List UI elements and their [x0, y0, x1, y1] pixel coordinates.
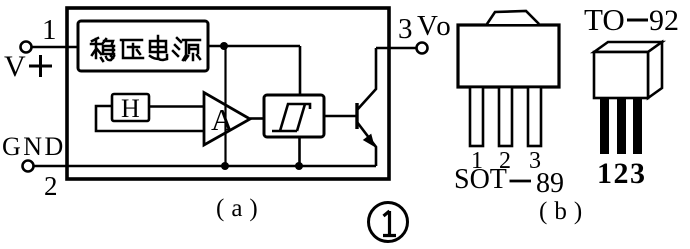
svg-text:V: V — [4, 50, 26, 83]
wire regulator output to node — [208, 45, 300, 48]
wire amp to schmitt — [250, 117, 264, 120]
电 — [150, 36, 167, 60]
svg-text:SOT: SOT — [454, 164, 507, 195]
hysteresis symbol — [272, 104, 310, 131]
wire hall output top — [148, 105, 204, 108]
ground rail wire — [34, 165, 376, 168]
svg-text:3: 3 — [398, 13, 413, 45]
package SOT-89 body — [458, 25, 559, 87]
wire hall output loop — [96, 106, 204, 131]
pin 1 terminal — [21, 42, 32, 53]
wire collector to pin 3 — [376, 47, 417, 50]
junction schmitt ground — [295, 162, 303, 170]
svg-text:H: H — [121, 94, 140, 123]
SOT-89 pin 3 lead — [528, 87, 541, 146]
svg-text:89: 89 — [536, 168, 564, 199]
junction amp ground — [221, 162, 229, 170]
svg-text:TO: TO — [584, 2, 625, 37]
pin 2 terminal GND — [23, 161, 34, 172]
svg-text:123: 123 — [597, 157, 647, 190]
transistor Q1 — [357, 48, 376, 166]
TO-92 pin 3 lead — [633, 98, 642, 154]
wire node to schmitt top — [299, 46, 302, 95]
Hall element H — [112, 94, 149, 121]
svg-text:Vo: Vo — [417, 10, 453, 42]
svg-text:2: 2 — [44, 171, 58, 201]
SOT-89 pin 2 lead — [499, 87, 512, 146]
schmitt trigger block — [264, 95, 324, 137]
IC outline U1 — [67, 8, 389, 179]
wire schmitt bottom to ground rail — [298, 137, 301, 166]
svg-text:(b): (b) — [539, 198, 589, 225]
junction node A — [220, 42, 228, 50]
压 — [121, 40, 143, 58]
svg-text:A: A — [211, 102, 234, 137]
block label 稳压电源 (drawn glyphs) — [91, 36, 200, 61]
源 — [173, 38, 200, 60]
svg-text:1: 1 — [42, 14, 57, 46]
TO-92 pin 2 lead — [617, 98, 626, 154]
svg-text:GND: GND — [2, 132, 66, 161]
package TO-92 body — [594, 42, 662, 98]
pin 3 terminal — [417, 43, 428, 54]
SOT-89 pin 1 lead — [470, 87, 483, 146]
稳 — [91, 38, 102, 58]
op-amp A — [204, 93, 250, 146]
SOT-89 tab — [487, 11, 539, 24]
wire pin1 to regulator — [32, 46, 78, 49]
wire node down through amplifier to ground rail — [224, 46, 226, 166]
wire schmitt output to transistor base — [324, 115, 356, 118]
svg-text:(a): (a) — [216, 195, 265, 222]
regulator block 稳压电源 — [78, 21, 208, 71]
svg-text:92: 92 — [649, 4, 679, 37]
TO-92 pin 1 lead — [600, 98, 609, 154]
figure number 1 circled — [369, 203, 408, 242]
